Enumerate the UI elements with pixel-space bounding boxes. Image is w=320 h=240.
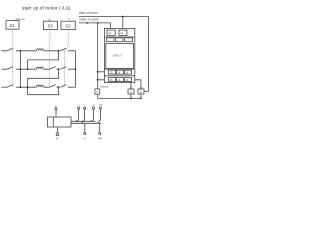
svg-text:A2: A2 (120, 31, 124, 35)
svg-text:PE: PE (98, 136, 102, 140)
svg-text:M: M (140, 91, 142, 94)
svg-text:S1: S1 (10, 23, 16, 28)
svg-text:(Mains): (Mains) (16, 17, 25, 21)
svg-text:M: M (130, 91, 132, 94)
svg-text:S3: S3 (48, 24, 54, 29)
svg-text:start up of motor ( λ Δ): start up of motor ( λ Δ) (22, 5, 71, 11)
svg-text:W: W (92, 104, 95, 108)
svg-text:N: N (84, 136, 86, 140)
svg-text:V: V (84, 104, 86, 108)
svg-text:U: U (78, 104, 80, 108)
svg-text:Y: Y (68, 17, 70, 21)
svg-text:A1: A1 (108, 31, 112, 35)
svg-text:(Mains): (Mains) (100, 86, 108, 89)
svg-text:CRM-2T: CRM-2T (113, 53, 123, 57)
svg-text:motor in cycle: motor in cycle (79, 18, 99, 22)
svg-text:start of motor: start of motor (79, 11, 99, 15)
svg-text:N: N (56, 137, 58, 141)
svg-text:S2: S2 (65, 24, 71, 29)
svg-text:Δ: Δ (49, 17, 51, 21)
svg-text:PE: PE (99, 104, 103, 108)
svg-text:P: P (96, 91, 98, 94)
